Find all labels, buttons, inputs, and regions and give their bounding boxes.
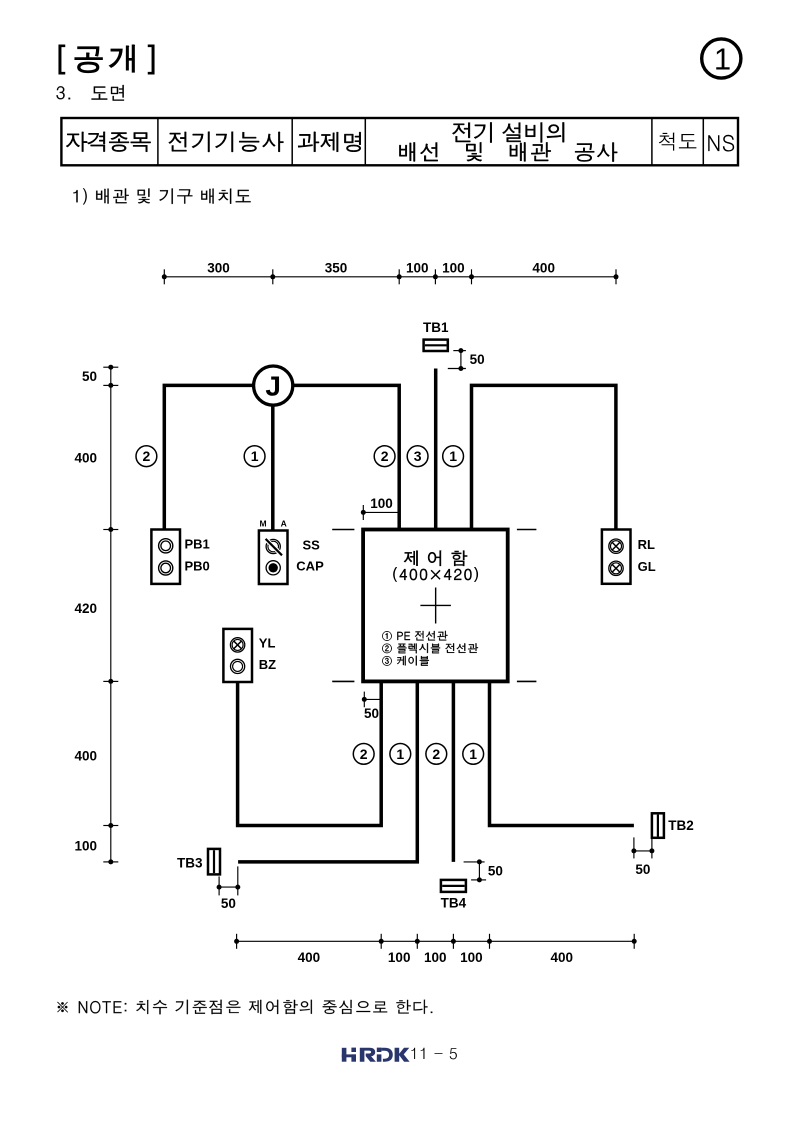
control box center mark	[420, 588, 451, 624]
svg-text:2: 2	[432, 746, 440, 762]
svg-text:3: 3	[414, 448, 422, 464]
dimension 100 at control box top-left	[361, 505, 399, 520]
svg-text:400: 400	[298, 950, 321, 965]
page number 1	[714, 42, 731, 77]
svg-text:2: 2	[143, 448, 151, 464]
svg-text:RL: RL	[638, 537, 655, 552]
table cell 전기기능사	[169, 132, 284, 152]
svg-text:1: 1	[469, 746, 477, 762]
svg-text:300: 300	[207, 260, 230, 275]
dim label 100 (box top-left)	[370, 496, 393, 511]
title block table frame	[61, 118, 738, 165]
heading 도면	[92, 85, 125, 101]
wire: TB4 branch ②	[452, 681, 456, 862]
svg-text:M: M	[260, 519, 267, 529]
wire: right branch (control box right riser ①, top-right run, RL riser)	[472, 385, 616, 529]
dimension 50 at TB3	[217, 866, 241, 895]
conduit marker ① (TB2 branch)	[463, 744, 484, 765]
svg-text:BZ: BZ	[259, 657, 276, 672]
title [공개]	[59, 45, 154, 74]
top dim label 350	[325, 260, 348, 275]
label SS	[303, 537, 321, 552]
centerline dashes at control box bottom	[332, 680, 536, 682]
lamp station RL/GL box	[602, 530, 631, 584]
note ※ NOTE	[57, 1000, 432, 1015]
top dim label 400	[532, 260, 555, 275]
conduit marker ② (left branch)	[136, 446, 157, 467]
bottom dim label 100	[424, 950, 447, 965]
centerline dashes at control box top	[332, 529, 536, 531]
legend ① PE 전선관	[382, 631, 447, 641]
dim label 50 (TB3)	[221, 896, 236, 911]
label YL	[259, 636, 276, 651]
svg-text:100: 100	[74, 838, 97, 853]
label A	[281, 519, 287, 529]
dim label 50 (TB2)	[635, 862, 650, 877]
bottom dim label 400	[298, 950, 321, 965]
selector/cap station box	[259, 531, 288, 585]
svg-text:CAP: CAP	[296, 559, 324, 574]
svg-text:100: 100	[424, 950, 447, 965]
svg-text:2: 2	[360, 746, 368, 762]
label BZ	[259, 657, 276, 672]
dim label 50 (box bottom-left)	[364, 706, 379, 721]
dimension 50 at TB4	[464, 859, 487, 882]
svg-text:PB1: PB1	[185, 536, 210, 551]
svg-text:SS: SS	[303, 537, 321, 552]
svg-text:1: 1	[449, 448, 457, 464]
dimension 50 below TB1	[448, 348, 466, 371]
table cell 과제명	[298, 132, 361, 152]
conduit marker ① (box right riser)	[443, 446, 464, 467]
svg-text:100: 100	[442, 260, 465, 275]
dim label 50 (TB1)	[470, 352, 485, 367]
svg-text:400: 400	[74, 748, 97, 763]
left dim label 100	[74, 838, 97, 853]
table cell 전기 설비의	[452, 122, 564, 142]
conduit marker ① (TB3 branch)	[390, 744, 411, 765]
label RL	[638, 537, 655, 552]
subtitle 1) 배관 및 기구 배치도	[73, 188, 250, 204]
left dim label 400	[74, 748, 97, 763]
push button PB1	[159, 539, 173, 553]
svg-text:A: A	[281, 519, 287, 529]
dimension 50 at TB2	[631, 837, 654, 858]
conduit marker ② (TB4 branch)	[426, 744, 447, 765]
push button station PB1/PB0	[151, 530, 180, 584]
label TB4	[441, 896, 467, 911]
pilot lamp YL	[230, 638, 244, 652]
svg-text:100: 100	[370, 496, 393, 511]
terminal block TB1	[424, 340, 448, 351]
label GL	[638, 559, 656, 574]
bottom dimension line 400/100/100/100/400	[234, 934, 637, 949]
svg-text:YL: YL	[259, 636, 276, 651]
svg-text:50: 50	[221, 896, 236, 911]
label M	[260, 519, 267, 529]
control box 제어함 (400x420)	[363, 530, 508, 682]
svg-text:J: J	[265, 371, 281, 402]
terminal block TB3	[208, 849, 220, 875]
footer page 11 - 5	[411, 1048, 457, 1060]
control box title 제어함	[404, 551, 467, 566]
dim label 50 (TB4)	[488, 863, 503, 878]
junction box label J	[265, 371, 281, 402]
svg-text:TB3: TB3	[177, 856, 203, 871]
pilot lamp RL	[609, 539, 623, 553]
pilot lamp GL	[609, 561, 623, 575]
wire: TB1 cable ③ drop	[434, 369, 438, 530]
table cell 배선 및 배관 공사	[399, 142, 617, 161]
left dimension line 50/400/420/400/100	[103, 365, 118, 865]
svg-text:1: 1	[714, 42, 731, 77]
wire: left branch (PB riser, top-left run, control box left riser ②)	[164, 385, 399, 529]
buzzer BZ	[231, 659, 245, 673]
svg-text:50: 50	[488, 863, 503, 878]
svg-text:100: 100	[460, 950, 483, 965]
control box size (400×420)	[393, 567, 477, 581]
svg-text:TB4: TB4	[441, 896, 467, 911]
wire: TB2 branch ①	[490, 681, 634, 825]
conduit marker ① (J drop)	[244, 446, 265, 467]
label TB3	[177, 856, 203, 871]
svg-text:1: 1	[396, 746, 404, 762]
push button PB0	[159, 561, 173, 575]
bottom dim label 100	[388, 950, 411, 965]
top dim label 100	[442, 260, 465, 275]
terminal block TB2	[652, 813, 664, 838]
svg-text:100: 100	[406, 260, 429, 275]
svg-text:50: 50	[364, 706, 379, 721]
label PB1	[185, 536, 210, 551]
heading 3.	[57, 86, 71, 99]
svg-text:100: 100	[388, 950, 411, 965]
top dimension line 300/350/100/100/400	[162, 269, 619, 284]
svg-text:350: 350	[325, 260, 348, 275]
left dim label 50	[82, 369, 97, 384]
svg-text:GL: GL	[638, 559, 656, 574]
table cell 척도	[659, 133, 697, 151]
conduit marker ② (box left riser)	[374, 446, 395, 467]
legend ③ 케이블	[382, 656, 429, 666]
conduit marker ② (YL/BZ branch)	[353, 744, 374, 765]
svg-text:400: 400	[532, 260, 555, 275]
wire: YL/BZ drop and bottom-left run to ② riser	[238, 681, 382, 825]
wire: TB3 branch ①	[238, 681, 417, 862]
svg-text:400: 400	[551, 950, 574, 965]
svg-text:50: 50	[82, 369, 97, 384]
label TB1	[423, 320, 449, 335]
label PB0	[185, 559, 210, 574]
junction box J	[254, 366, 293, 405]
bottom dim label 100	[460, 950, 483, 965]
bottom dim label 400	[551, 950, 574, 965]
dimension 50 at control box bottom-left	[362, 692, 381, 708]
conduit marker ③ (TB1 cable)	[407, 446, 428, 467]
selector switch SS	[266, 539, 282, 555]
label CAP	[296, 559, 324, 574]
lamp/buzzer station YL/BZ box	[223, 629, 252, 682]
terminal block TB4	[441, 880, 466, 892]
svg-text:420: 420	[74, 601, 97, 616]
svg-text:2: 2	[381, 448, 389, 464]
svg-text:PB0: PB0	[185, 559, 210, 574]
svg-text:50: 50	[635, 862, 650, 877]
svg-text:50: 50	[470, 352, 485, 367]
page number circle	[702, 39, 741, 78]
svg-text:1: 1	[251, 448, 259, 464]
svg-text:400: 400	[74, 450, 97, 465]
svg-text:TB2: TB2	[668, 818, 694, 833]
svg-text:TB1: TB1	[423, 320, 449, 335]
top dim label 300	[207, 260, 230, 275]
table cell NS	[708, 135, 734, 152]
left dim label 420	[74, 601, 97, 616]
label TB2	[668, 818, 694, 833]
table cell 자격종목	[66, 132, 151, 152]
footer logo HRDK	[342, 1048, 410, 1062]
wire: J box drop to SS	[271, 385, 275, 530]
legend ② 플렉시블 전선관	[382, 643, 478, 653]
pilot device CAP	[266, 561, 280, 575]
left dim label 400	[74, 450, 97, 465]
top dim label 100	[406, 260, 429, 275]
